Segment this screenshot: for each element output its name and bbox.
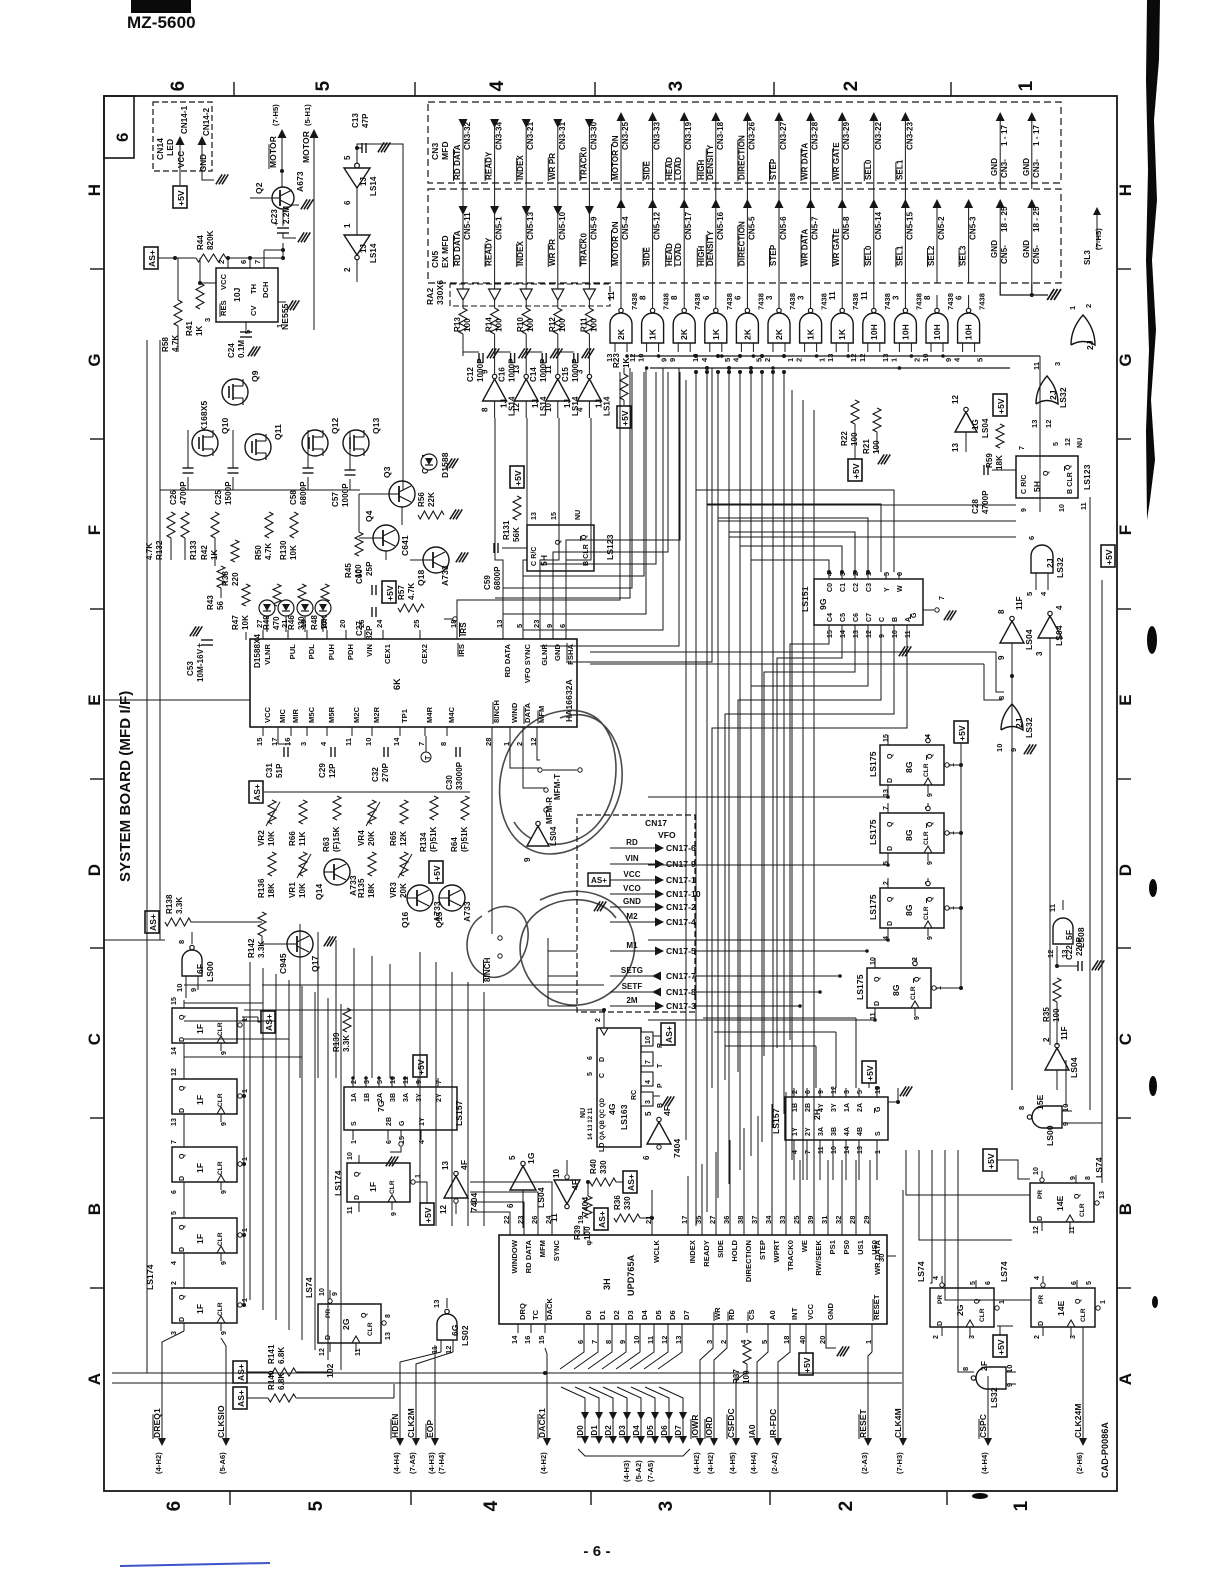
svg-text:MOTOR: MOTOR — [301, 131, 311, 163]
LS151 top pin dots — [827, 570, 831, 574]
UPD765A pin 10 D4 — [639, 1324, 641, 1333]
svg-text:6800P: 6800P — [299, 481, 308, 505]
resistors R22 R21 100 — [851, 400, 859, 424]
svg-text:18 - 25: 18 - 25 — [1032, 206, 1041, 232]
svg-text:8G: 8G — [891, 984, 901, 996]
svg-text:F: F — [85, 525, 104, 535]
svg-text:CN5-12: CN5-12 — [653, 211, 662, 240]
+5V supply near Q15 — [429, 861, 443, 883]
connector CN3 box — [428, 102, 1061, 183]
capacitor C29 12P — [330, 747, 332, 757]
svg-text:R63: R63 — [322, 837, 331, 852]
label MFM-T — [538, 768, 542, 772]
svg-text:1: 1 — [999, 1300, 1006, 1304]
svg-text:5: 5 — [1086, 1281, 1093, 1285]
svg-text:EX MFD: EX MFD — [440, 235, 450, 268]
grid column labels bottom — [164, 1501, 185, 1512]
svg-text:D: D — [1037, 1216, 1044, 1221]
svg-text:SIDE: SIDE — [643, 246, 652, 266]
pen scribble loop lower — [467, 891, 635, 1005]
svg-text:4.7K: 4.7K — [145, 543, 154, 560]
svg-text:D: D — [1116, 864, 1135, 876]
UPD765A pin 14 DRQ — [517, 1324, 519, 1333]
svg-text:LS175: LS175 — [868, 894, 878, 920]
transistor Q16 A733 — [407, 885, 433, 911]
flip-flop LS174 1F #5 — [172, 1288, 237, 1323]
svg-text:1: 1 — [242, 1157, 249, 1161]
svg-text:56K: 56K — [512, 527, 521, 542]
svg-text:C32: C32 — [371, 767, 380, 782]
svg-text:D: D — [179, 1247, 186, 1252]
svg-text:(7-H5): (7-H5) — [271, 104, 280, 126]
flip-flop 14E LS74 lower — [1031, 1288, 1095, 1327]
CN3 signal SEL1 CN3-23 — [904, 120, 906, 283]
svg-text:19: 19 — [299, 619, 308, 628]
svg-text:(4-H4): (4-H4) — [392, 1452, 401, 1474]
svg-text:D0: D0 — [584, 1310, 593, 1320]
svg-text:+: + — [197, 641, 202, 650]
svg-text:5: 5 — [313, 80, 334, 91]
svg-text:DIRECTION: DIRECTION — [744, 1240, 753, 1282]
+5V for R59 — [993, 394, 1007, 416]
svg-text:10H: 10H — [932, 324, 942, 340]
svg-text:C58: C58 — [289, 490, 298, 505]
svg-text:8G: 8G — [904, 904, 914, 916]
svg-text:GND: GND — [1022, 158, 1031, 176]
svg-text:SIDE: SIDE — [716, 1240, 725, 1258]
svg-text:1: 1 — [1011, 1500, 1032, 1511]
svg-text:LS04: LS04 — [981, 418, 990, 438]
svg-text:4G: 4G — [607, 1103, 617, 1115]
HA16632A pin 24 CEX1 — [382, 630, 384, 639]
UPD765A pin 13 D7 — [681, 1324, 683, 1333]
svg-text:4: 4 — [953, 357, 962, 362]
svg-text:1F: 1F — [195, 1304, 205, 1314]
svg-text:8G: 8G — [904, 761, 914, 773]
svg-text:6: 6 — [1027, 536, 1036, 540]
svg-text:PR: PR — [1037, 1190, 1044, 1199]
svg-text:P: P — [657, 1083, 664, 1088]
HA16632A pin 10 M2R — [371, 727, 373, 736]
signal riser HDEN — [400, 1352, 441, 1380]
svg-text:10H: 10H — [964, 324, 974, 340]
signal IORD to 4-H2 — [713, 1376, 715, 1444]
svg-text:1B: 1B — [364, 1093, 371, 1102]
svg-text:D: D — [887, 846, 894, 851]
wire 15E inputs — [1065, 1060, 1067, 1106]
CN3 signal WR GATE CN3-29 — [841, 120, 843, 283]
LS157 2H bottom stubs — [793, 1150, 795, 1180]
svg-text:10: 10 — [995, 743, 1004, 752]
gate 7438 2K col 2 — [683, 283, 685, 310]
svg-text:SL3: SL3 — [1083, 250, 1092, 265]
svg-text:4F: 4F — [570, 1180, 580, 1190]
transistor Q9 — [222, 379, 248, 405]
UPD765A pin 21 WCLK — [651, 1226, 653, 1235]
svg-text:6: 6 — [386, 1140, 393, 1144]
transistor Q11 — [245, 434, 271, 460]
grid row labels left — [85, 184, 104, 196]
HA16632A top right pin risers — [457, 372, 620, 630]
svg-text:LS32: LS32 — [989, 1387, 999, 1408]
svg-text:TRACK0: TRACK0 — [579, 147, 588, 180]
UPD765A pin 26 MFM — [537, 1226, 539, 1235]
svg-text:MOTOR ON: MOTOR ON — [611, 135, 620, 180]
svg-text:1G: 1G — [971, 419, 980, 430]
svg-text:1A: 1A — [351, 1093, 358, 1102]
svg-text:VCC: VCC — [263, 706, 272, 723]
flip-flop 2G LS74 left — [318, 1304, 381, 1343]
svg-text:10H: 10H — [900, 324, 910, 340]
svg-text:3: 3 — [203, 318, 212, 322]
svg-text:M2R: M2R — [372, 706, 381, 723]
UPD765A pin 24 SYNC — [551, 1226, 553, 1235]
svg-text:C1: C1 — [840, 583, 847, 592]
UPD765A pin 33 TRACK0 — [785, 1226, 787, 1235]
or gate 2J LS32 upper right — [1071, 315, 1095, 345]
svg-text:13: 13 — [432, 1299, 441, 1308]
HA16632A pin 7 M4R — [424, 727, 426, 736]
ground for LS157 7G — [399, 1142, 403, 1146]
svg-text:DENSITY: DENSITY — [706, 230, 715, 266]
gate 7438 2K col 0 — [620, 283, 622, 310]
svg-text:LS151: LS151 — [800, 586, 810, 612]
CN3 signal WR PR CN3-31 — [557, 120, 559, 283]
svg-text:PR: PR — [1038, 1295, 1045, 1304]
svg-text:8: 8 — [997, 609, 1006, 614]
svg-text:A673: A673 — [295, 171, 305, 192]
svg-text:9: 9 — [221, 1051, 228, 1055]
svg-text:C53: C53 — [186, 661, 195, 676]
svg-text:11: 11 — [1048, 904, 1057, 912]
CN5 signal SEL2 CN5-2 — [936, 207, 938, 283]
svg-text:9: 9 — [927, 936, 934, 940]
svg-text:1: 1 — [275, 324, 284, 328]
svg-text:CLR: CLR — [979, 1308, 986, 1322]
CN3 signal RD DATA CN3-32 — [462, 120, 464, 283]
svg-text:AS+: AS+ — [626, 1174, 636, 1191]
CN17 pin VIN CN17-9 — [610, 863, 658, 865]
svg-text:R22: R22 — [840, 431, 849, 446]
UPD765A pin 23 RD DATA — [523, 1226, 525, 1235]
svg-text:21: 21 — [644, 1215, 653, 1224]
svg-text:11: 11 — [344, 738, 353, 746]
signal CLK24M to 2-H6 — [1082, 1376, 1084, 1444]
svg-text:8: 8 — [670, 295, 679, 300]
svg-text:270P: 270P — [381, 762, 390, 782]
svg-text:A733: A733 — [462, 901, 472, 922]
wire IOWR IORD from UPD — [700, 1333, 713, 1388]
ground for LS157 2H — [888, 1101, 898, 1103]
svg-text:LED: LED — [165, 139, 175, 156]
HA16632A pin 15 VCC — [262, 727, 264, 736]
svg-text:6G: 6G — [450, 1324, 460, 1336]
svg-text:AS+: AS+ — [252, 784, 262, 801]
svg-text:G: G — [399, 1120, 406, 1126]
CN5 signal WR PR CN5-10 — [553, 206, 562, 215]
svg-text:D: D — [354, 1195, 361, 1200]
+5V for LS157 2H — [862, 1061, 876, 1083]
svg-text:RD DATA: RD DATA — [453, 230, 462, 266]
svg-text:CN5-9: CN5-9 — [589, 216, 598, 240]
svg-text:1: 1 — [242, 1228, 249, 1232]
svg-text:8: 8 — [923, 295, 932, 300]
svg-text:(4-H4): (4-H4) — [749, 1452, 758, 1474]
inverter 4F 7404 — [444, 1176, 468, 1198]
svg-text:D: D — [179, 1176, 186, 1181]
svg-text:C2: C2 — [853, 583, 860, 592]
blue pen mark — [120, 1563, 270, 1566]
+5V supply near Q18 — [382, 581, 396, 603]
inverter 1G LS04 above UPD — [510, 1166, 536, 1190]
svg-text:ID2: ID2 — [604, 1425, 613, 1438]
CN17 pin 2M CN17-3 — [610, 1005, 658, 1007]
IC NE555 10J — [216, 268, 278, 322]
svg-text:R48: R48 — [310, 615, 319, 630]
HA16632A pin 8 M4C — [446, 727, 448, 736]
svg-text:13: 13 — [605, 353, 614, 362]
and gate 2J LS32 top right — [1031, 545, 1053, 573]
svg-text:D7: D7 — [682, 1310, 691, 1320]
svg-text:1Y: 1Y — [792, 1127, 799, 1136]
svg-text:T: T — [425, 755, 432, 760]
or gate 2J LS32 near E — [1001, 704, 1023, 730]
ID bus brace — [578, 1449, 690, 1456]
svg-text:Q9: Q9 — [250, 370, 260, 382]
svg-text:CN5-15: CN5-15 — [905, 211, 914, 240]
svg-text:+5V: +5V — [996, 398, 1006, 414]
svg-text:14E: 14E — [1056, 1300, 1066, 1316]
svg-text:3.3K: 3.3K — [342, 1035, 351, 1052]
UPD765A pin 25 WE — [799, 1226, 801, 1235]
svg-text:LOAD: LOAD — [674, 243, 683, 266]
svg-text:CN17-6: CN17-6 — [666, 843, 696, 853]
svg-text:DIRECTION: DIRECTION — [737, 135, 746, 180]
svg-text:CLR: CLR — [923, 906, 930, 920]
test point T — [421, 752, 431, 762]
svg-text:+5V: +5V — [1104, 549, 1114, 565]
HA16632A pin 14 TP1 — [399, 727, 401, 736]
svg-text:6: 6 — [506, 1203, 515, 1208]
capacitor C53 10M-16V — [201, 639, 213, 641]
svg-text:12P: 12P — [328, 763, 337, 778]
svg-text:VR4: VR4 — [357, 830, 366, 846]
svg-text:2G: 2G — [955, 1304, 965, 1316]
svg-text:ID1: ID1 — [590, 1425, 599, 1438]
svg-text:3.3K: 3.3K — [175, 897, 184, 914]
HA16632A pin 26 VIN — [364, 630, 366, 639]
svg-text:CEX1: CEX1 — [383, 644, 392, 664]
svg-text:VIN: VIN — [625, 854, 639, 863]
svg-text:M5R: M5R — [327, 706, 336, 723]
svg-text:11: 11 — [828, 291, 837, 300]
wire mesh CN17 right extra horizontals — [703, 1017, 856, 1019]
svg-text:11: 11 — [905, 630, 912, 638]
svg-text:READY: READY — [702, 1240, 711, 1267]
svg-text:LS14: LS14 — [602, 396, 611, 416]
inverter LS14 1J lower — [344, 235, 370, 255]
UPD765A top pin risers — [687, 1176, 689, 1226]
svg-text:2M: 2M — [626, 996, 638, 1005]
svg-text:1J: 1J — [359, 244, 368, 253]
UPD765A pin 1 RESET — [871, 1324, 873, 1333]
UPD765A pin 36 HOLD — [729, 1226, 731, 1235]
HA16632A pin 22 PUH — [326, 630, 328, 639]
svg-text:CN3-28: CN3-28 — [811, 121, 820, 150]
svg-text:LS163: LS163 — [619, 1104, 629, 1130]
wire CSFDC from R37 — [746, 1364, 748, 1372]
svg-text:CLR: CLR — [923, 763, 930, 777]
transistor Q13 — [343, 430, 369, 456]
AS+ supply near R138 — [145, 911, 159, 933]
svg-text:2: 2 — [836, 1501, 857, 1512]
svg-text:Q: Q — [179, 1224, 186, 1230]
svg-text:10: 10 — [831, 1146, 838, 1154]
HA16632A pin 20 PDH — [345, 630, 347, 639]
svg-text:TP1: TP1 — [400, 709, 409, 723]
svg-text:(5-H1): (5-H1) — [303, 104, 312, 126]
transistor Q2 A673 — [272, 187, 294, 209]
svg-text:12: 12 — [1065, 438, 1072, 446]
svg-text:1K: 1K — [648, 328, 658, 340]
svg-text:D: D — [874, 1001, 881, 1006]
svg-text:D6: D6 — [668, 1310, 677, 1320]
HA16632A pin 9 GND — [552, 630, 554, 639]
row E long horizontals — [590, 651, 996, 653]
svg-text:12: 12 — [951, 394, 960, 404]
svg-text:13: 13 — [171, 1118, 178, 1126]
wire mesh LS175 D-pin links — [648, 795, 888, 797]
IC LS123 5H second — [1016, 456, 1078, 498]
svg-text:9: 9 — [189, 988, 198, 992]
svg-text:C641: C641 — [400, 535, 410, 556]
svg-text:WR DATA: WR DATA — [801, 229, 810, 266]
svg-text:IRS: IRS — [459, 622, 468, 636]
svg-text:1: 1 — [415, 1174, 422, 1178]
UPD765A pin 6 D0 — [583, 1324, 585, 1333]
svg-text:A733: A733 — [440, 565, 450, 586]
svg-text:B CLR: B CLR — [1067, 472, 1074, 494]
AS+ for R40 — [623, 1171, 637, 1193]
+5V between LS74s — [993, 1335, 1007, 1357]
svg-text:D5: D5 — [654, 1310, 663, 1320]
svg-text:1: 1 — [242, 1298, 249, 1302]
svg-text:R58: R58 — [161, 337, 170, 352]
resistor R43 56 — [217, 566, 225, 588]
svg-text:AS+: AS+ — [264, 1014, 274, 1031]
svg-text:9: 9 — [221, 1261, 228, 1265]
UPD765A right pin risers — [799, 1160, 801, 1226]
svg-text:18 - 25: 18 - 25 — [1000, 206, 1009, 232]
svg-text:H: H — [1116, 184, 1135, 196]
svg-text:K168X5: K168X5 — [199, 401, 209, 432]
label MFM-R — [544, 788, 548, 792]
resistor R48 10K — [321, 584, 329, 606]
svg-text:CV: CV — [249, 305, 258, 316]
transistor Q14 A733 — [324, 859, 350, 885]
signal IOWR to 4-H2 — [699, 1376, 701, 1444]
svg-text:R45: R45 — [344, 563, 353, 578]
svg-text:C5: C5 — [840, 613, 847, 622]
and gate 5F LS08 — [1053, 918, 1073, 944]
ground CN17 — [600, 901, 606, 911]
svg-text:25: 25 — [412, 619, 421, 628]
junction dots center bus — [694, 370, 698, 374]
svg-text:5: 5 — [857, 1090, 864, 1094]
wire mesh HA bottom pin drops — [491, 736, 493, 934]
svg-text:AS+: AS+ — [664, 1026, 674, 1043]
svg-text:4: 4 — [1034, 1276, 1041, 1280]
inverter 4F 7404 under LS163 — [647, 1122, 671, 1144]
wires transistor area — [159, 340, 161, 490]
svg-text:2: 2 — [841, 81, 862, 92]
svg-text:9: 9 — [668, 358, 677, 362]
svg-text:CN3: CN3 — [430, 143, 440, 160]
svg-text:+5V: +5V — [416, 1059, 426, 1075]
+5V for LS157 7G — [413, 1055, 427, 1077]
svg-text:Q: Q — [927, 753, 934, 759]
svg-text:D: D — [85, 864, 104, 876]
CN5 signal DIRECTION CN5-5 — [743, 199, 752, 208]
HA16632A pin 12 MFM — [536, 727, 538, 736]
svg-text:7: 7 — [253, 260, 262, 264]
svg-text:R11: R11 — [579, 317, 588, 332]
page title bar — [131, 0, 191, 13]
svg-text:WINDOW: WINDOW — [510, 1239, 519, 1273]
svg-text:R10: R10 — [516, 317, 525, 332]
svg-text:MIC: MIC — [278, 708, 287, 723]
svg-text:3: 3 — [765, 295, 774, 300]
svg-text:LS00: LS00 — [1045, 1125, 1055, 1146]
CN5 signal WR GATE CN5-8 — [838, 199, 847, 208]
svg-text:8INCH: 8INCH — [483, 957, 492, 982]
svg-text:11: 11 — [818, 1146, 825, 1154]
svg-text:+5V: +5V — [851, 463, 861, 479]
svg-text:4B: 4B — [857, 1127, 864, 1136]
svg-text:CN5-3: CN5-3 — [969, 216, 978, 240]
wire mesh staircase above LS151 — [751, 560, 829, 572]
flip-flop LS174 1F #3 — [172, 1147, 237, 1182]
CN5 signal HIGH DENSITY CN5-16 — [711, 199, 720, 208]
svg-text:Q2: Q2 — [254, 182, 264, 194]
svg-text:R41: R41 — [185, 321, 194, 336]
svg-text:+5V: +5V — [996, 1339, 1006, 1355]
connector CN5 box — [428, 189, 1061, 283]
CN5 signal SEL0 CN5-14 — [869, 199, 878, 208]
svg-text:1000P: 1000P — [341, 483, 350, 507]
svg-text:6: 6 — [164, 1501, 185, 1512]
svg-text:4.7K: 4.7K — [171, 335, 180, 352]
IC LS175 8G #4 — [867, 968, 931, 1008]
svg-text:9: 9 — [1061, 1122, 1070, 1126]
trimmer VR2 10K — [268, 800, 276, 824]
svg-text:R138: R138 — [165, 894, 174, 914]
svg-text:10J: 10J — [232, 287, 242, 302]
svg-text:1 - 17: 1 - 17 — [1032, 124, 1041, 146]
wire CN17 left links — [548, 950, 577, 952]
svg-text:15: 15 — [827, 630, 834, 638]
svg-text:CLR: CLR — [367, 1322, 374, 1336]
svg-text:(4-H2): (4-H2) — [706, 1452, 715, 1474]
svg-text:SEL2: SEL2 — [927, 245, 936, 266]
gate 7438 1K col 6 — [810, 283, 812, 310]
wire mesh staircase to 14E 2G — [906, 1150, 1030, 1195]
svg-text:R47: R47 — [231, 615, 240, 630]
resistor R140 6.8K with AS+ — [233, 1387, 247, 1409]
svg-text:56: 56 — [216, 600, 225, 610]
svg-text:LS02: LS02 — [460, 1325, 470, 1346]
wire mesh mid-left verticals to UPD — [419, 952, 421, 1226]
